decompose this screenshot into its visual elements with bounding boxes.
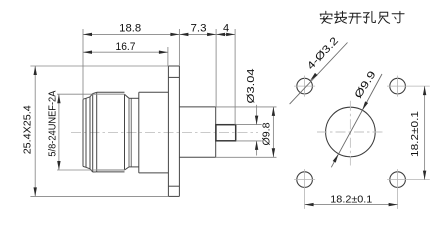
svg-text:5/8-24UNEF-2A: 5/8-24UNEF-2A — [47, 90, 58, 156]
svg-text:4: 4 — [223, 22, 229, 34]
collar — [138, 92, 140, 173]
svg-text:18.8: 18.8 — [119, 22, 141, 34]
svg-text:7.3: 7.3 — [191, 22, 207, 34]
barrel rear chamfer — [125, 94, 130, 98]
dimension line 25.4X25.4 — [34, 66, 36, 196]
title: mounting hole dimensions (CJK, drawn strokes) — [320, 11, 404, 23]
body diameter 9.8 extension lines — [216, 106, 277, 108]
bolt hole top-right — [390, 78, 406, 94]
centermark ticks bottom-left hole + ext — [294, 179, 315, 181]
leader O9.9 diameter — [331, 74, 382, 167]
threaded barrel 5/8-24UNEF — [96, 92, 98, 172]
centerline of connector axis — [71, 132, 258, 134]
dimension line 18.8 / 7.3 / 4 — [83, 33, 235, 35]
connector front face rim — [82, 99, 84, 166]
centermark ticks bottom-right hole + ext — [387, 179, 430, 181]
svg-text:25.4X25.4: 25.4X25.4 — [21, 105, 33, 154]
extension line body right x216.1 — [215, 29, 217, 107]
extension line flange right x179.4 — [178, 29, 180, 66]
dimension line 5/8-24UNEF-2A — [58, 94, 60, 170]
rear body — [179, 106, 215, 108]
bolt hole top-left — [297, 78, 313, 94]
svg-text:18.2±0.1: 18.2±0.1 — [409, 111, 421, 157]
thread dim 5/8-24UNEF-2A extension lines — [57, 93, 97, 95]
centermark ticks top-right hole + ext — [387, 85, 430, 87]
svg-text:Ø3.04: Ø3.04 — [245, 68, 257, 103]
bolt hole bottom-left — [297, 172, 313, 188]
centerlines of central hole — [317, 131, 384, 133]
svg-text:Ø9.8: Ø9.8 — [260, 122, 272, 145]
leader 4-O3.2 to top-left hole — [290, 43, 348, 105]
dimension line O3.04 — [256, 105, 258, 125]
extension line left x83 — [82, 29, 84, 99]
svg-text:16.7: 16.7 — [116, 41, 136, 53]
neck groove — [129, 97, 139, 99]
extension line pin right x235.1 — [234, 29, 236, 125]
pin diameter 3.04 extension lines — [236, 124, 262, 126]
bolt hole bottom-right — [390, 172, 406, 188]
dimension 18.2 right — [424, 86, 426, 180]
central hole O9.9 — [326, 107, 376, 157]
dimension 25.4X25.4 extension lines — [30, 65, 168, 67]
terminal pin — [216, 125, 236, 141]
centermark ticks top-left hole — [294, 85, 315, 87]
svg-text:18.2±0.1: 18.2±0.1 — [330, 194, 372, 206]
dimension line O9.8 — [272, 107, 274, 157]
dimension line 16.7 — [167, 47, 169, 66]
flange plate side view — [167, 66, 169, 196]
front chamfer cone — [90, 94, 93, 97]
thread root lines — [97, 93, 125, 95]
dimension 18.2 bottom — [305, 204, 398, 206]
